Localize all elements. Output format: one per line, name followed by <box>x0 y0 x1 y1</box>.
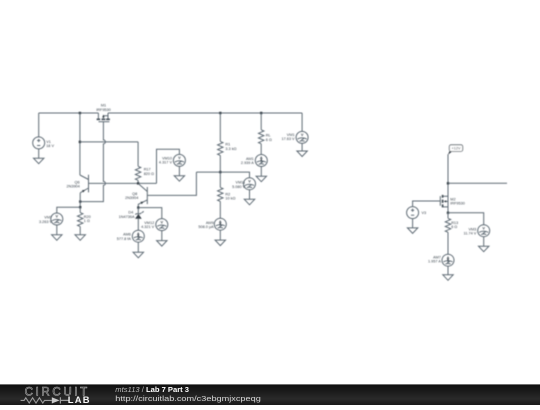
footer title text <box>115 385 260 403</box>
svg-text:17.63 V: 17.63 V <box>282 137 296 141</box>
resistor R13 <box>445 213 458 254</box>
resistor R17 <box>135 142 154 184</box>
wire to R17 top <box>80 141 138 143</box>
resistor R2 <box>218 172 236 218</box>
svg-text:6 Ω: 6 Ω <box>451 225 457 229</box>
resistor R1 <box>218 113 237 172</box>
wire M1 gate line with hops <box>80 122 105 202</box>
CircuitLab logo <box>21 386 91 406</box>
svg-text:6 Ω: 6 Ω <box>266 138 272 142</box>
wire Q6 base line <box>89 182 157 184</box>
svg-text:V3: V3 <box>422 211 427 215</box>
voltmeter VM1 <box>282 131 309 143</box>
svg-text:mts113 / Lab 7 Part 3: mts113 / Lab 7 Part 3 <box>115 385 189 394</box>
node R1-R2 junction <box>219 171 221 173</box>
svg-text:Q8: Q8 <box>132 192 137 196</box>
voltage source V1 <box>33 137 55 149</box>
svg-text:AM1: AM1 <box>246 157 254 161</box>
node emitter/VM7/R20 junction <box>79 206 81 208</box>
svg-text:http://circuitlab.com/c3ebgmjx: http://circuitlab.com/c3ebgmjxcpeqg <box>115 394 260 403</box>
svg-text:AM6: AM6 <box>123 232 131 236</box>
ammeter AM6 <box>117 230 145 242</box>
node R17 bottom junction <box>137 182 139 184</box>
voltmeter VM12 <box>141 219 168 231</box>
svg-text:508.0 µA: 508.0 µA <box>198 225 214 229</box>
svg-text:LAB: LAB <box>68 394 91 405</box>
wire Q6 emitter down <box>79 193 81 207</box>
svg-text:R1: R1 <box>225 142 230 146</box>
node +12V branch junction <box>447 182 449 184</box>
wire Q8 base to divider <box>147 172 196 195</box>
svg-text:+12V: +12V <box>452 147 461 151</box>
resistor R20 <box>77 207 90 235</box>
ground below VM1 <box>297 143 307 156</box>
net flag +12V <box>448 145 463 155</box>
svg-text:V: V <box>161 220 164 224</box>
transistor M1 IRF9530 (P-MOSFET) <box>96 103 111 121</box>
svg-text:1.957 A: 1.957 A <box>428 260 441 264</box>
ground below AM9 <box>215 230 225 245</box>
ground below R20 <box>75 235 85 241</box>
wire top rail left <box>39 112 99 114</box>
svg-text:10 kΩ: 10 kΩ <box>225 197 235 201</box>
svg-text:4.317 V: 4.317 V <box>159 161 173 165</box>
voltage source V3 <box>407 207 427 219</box>
wire divider node horizontal <box>196 172 249 178</box>
svg-text:RL: RL <box>266 133 271 137</box>
svg-text:2.939 A: 2.939 A <box>241 161 254 165</box>
voltmeter VM7 <box>39 213 63 225</box>
ammeter AM7 <box>428 254 454 266</box>
svg-text:11.74 V: 11.74 V <box>463 232 476 236</box>
wire +12V stub right <box>448 182 507 184</box>
svg-text:5.080 V: 5.080 V <box>232 185 246 189</box>
wire emitter to VM12 <box>138 208 162 219</box>
svg-text:R17: R17 <box>144 167 151 171</box>
ground below AM6 <box>133 242 143 258</box>
node rail-left junction <box>79 112 81 114</box>
ground below VM3 <box>479 237 489 252</box>
voltmeter VM11 <box>232 178 255 190</box>
svg-text:3.263 V: 3.263 V <box>39 220 53 224</box>
wire to VM7 <box>57 207 80 213</box>
node Q8 emitter junction <box>137 206 139 208</box>
ground below VM12 <box>157 231 167 247</box>
svg-text:VM7: VM7 <box>44 216 52 220</box>
voltmeter VM10 <box>159 154 185 166</box>
ammeter AM1 <box>241 155 267 167</box>
svg-text:3.3 kΩ: 3.3 kΩ <box>225 147 236 151</box>
svg-text:M1: M1 <box>101 103 106 107</box>
transistor Q8 2N3904 <box>125 184 147 208</box>
wire left vertical to Q6 collector <box>79 113 81 175</box>
svg-text:IRF9530: IRF9530 <box>96 108 111 112</box>
ground below V3 <box>407 219 417 234</box>
svg-text:2N3904: 2N3904 <box>125 196 138 200</box>
svg-text:V: V <box>248 180 251 184</box>
wire to VM3 <box>448 213 484 225</box>
svg-text:V: V <box>482 226 485 230</box>
ground below VM7 <box>52 225 62 240</box>
svg-text:820 Ω: 820 Ω <box>144 172 154 176</box>
diode D4 1N4736A (zener) <box>119 208 144 231</box>
svg-text:V: V <box>56 215 59 219</box>
svg-text:18 V: 18 V <box>46 144 54 148</box>
wire top rail right <box>108 112 302 114</box>
svg-text:VM11: VM11 <box>236 180 246 184</box>
wire +12V down to M2 <box>447 154 449 213</box>
ground below V1 <box>34 149 44 164</box>
svg-text:1 Ω: 1 Ω <box>84 219 90 223</box>
ground below AM1 <box>256 167 266 182</box>
wire V1 top stem <box>38 113 40 137</box>
wire VM1 stem <box>301 113 303 131</box>
node rail R1 junction <box>219 112 221 114</box>
svg-text:2N3904: 2N3904 <box>66 185 79 189</box>
svg-text:IRF9530: IRF9530 <box>450 202 465 206</box>
node rail RL junction <box>260 112 262 114</box>
svg-text:D4: D4 <box>128 211 133 215</box>
ground below AM7 <box>443 266 453 280</box>
node M2 source junction <box>447 212 449 214</box>
node R17 branch junction <box>79 141 81 143</box>
ground below VM11 <box>244 190 254 205</box>
transistor M2 IRF9530 (P-MOSFET) <box>440 195 465 208</box>
svg-text:577.8 fA: 577.8 fA <box>117 237 132 241</box>
svg-text:1N4736A: 1N4736A <box>119 215 135 219</box>
svg-text:V: V <box>178 156 181 160</box>
ground below VM10 <box>174 166 184 181</box>
wire V3 to M2 gate <box>413 201 441 207</box>
svg-text:4.321 V: 4.321 V <box>141 225 155 229</box>
node Q6-emitter gate junction <box>79 200 81 202</box>
transistor Q6 2N3904 <box>66 175 88 193</box>
resistor RL <box>259 113 272 155</box>
wire base line to VM10 riser <box>157 149 180 183</box>
voltmeter VM3 <box>463 225 489 237</box>
ammeter AM9 <box>198 218 226 230</box>
svg-text:AM7: AM7 <box>433 255 441 259</box>
